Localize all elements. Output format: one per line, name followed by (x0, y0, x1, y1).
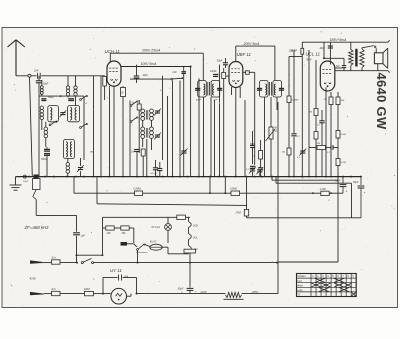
switch band b (80, 95, 88, 100)
wire vert x278 upper (277, 102, 279, 177)
rectifier loop (103, 278, 137, 295)
wire x316 (315, 60, 317, 132)
wire vert x302 (301, 57, 303, 177)
wire vert x39 (38, 76, 40, 177)
wire pot bottom (270, 139, 272, 177)
svg-text:250: 250 (122, 232, 127, 235)
coil osc T2b (150, 127, 154, 138)
resistor x316 a (309, 109, 318, 116)
capacitor fb (327, 145, 333, 154)
svg-text:50pF: 50pF (217, 60, 223, 62)
avc line L3 (97, 204, 247, 206)
capacitor 5nF out (336, 58, 347, 70)
svg-text:+: + (364, 191, 366, 195)
trimmer bottom left (77, 165, 84, 172)
coil left column (40, 106, 43, 130)
wire vert x68 (67, 76, 69, 98)
wire fb (326, 147, 339, 149)
wire res to x190 (189, 253, 191, 263)
wire grid junction line (323, 42, 344, 59)
urdox box (121, 242, 128, 246)
capacitor 40pF IF1 (134, 74, 149, 78)
wire step line b (276, 177, 352, 184)
antenna terminal (28, 74, 31, 77)
resistor 0.5M a (134, 188, 143, 196)
heater winding UCL (189, 234, 199, 240)
capacitor 50pF UBF grid (217, 60, 228, 64)
resistor 1k osc (132, 101, 142, 110)
wire T1 legs (204, 97, 212, 177)
wire x190 cap (189, 263, 191, 285)
resistor 27k (235, 209, 249, 216)
svg-text:5nF: 5nF (124, 276, 129, 278)
ground bus wire (16, 176, 362, 178)
tube UCL11 (320, 61, 335, 91)
svg-text:ZF=468 kHz: ZF=468 kHz (24, 225, 50, 230)
trimmer above bus b (256, 167, 263, 174)
wire UY right (127, 294, 191, 297)
wire 27k legs (246, 205, 248, 217)
wire to switch IF (130, 78, 171, 80)
svg-text:EU XI: EU XI (150, 241, 157, 244)
wire vert x245 bus (246, 177, 248, 206)
wire 40pF legs (136, 65, 138, 83)
capacitor 40pF out (320, 46, 334, 50)
switch band a (49, 121, 57, 126)
capacitor det b (258, 168, 263, 170)
wire x260.6 (260, 140, 262, 166)
wire urdox (127, 244, 137, 247)
capacitor 500pF (41, 149, 50, 160)
junctions on ground bus (28, 176, 362, 178)
label 210V (200, 290, 207, 294)
wire vert x172.5 (172, 81, 174, 177)
label T1 caps (196, 99, 218, 102)
capacitor 10uF shunt (36, 81, 49, 86)
svg-text:100pF: 100pF (210, 71, 217, 73)
resistor x338 low (336, 159, 346, 166)
coil antenna L1 (40, 86, 43, 95)
wire bus drop x225 (224, 177, 226, 195)
coil bumps tuned 1 (50, 108, 52, 120)
heater top wire (103, 216, 177, 218)
resistor 0.5M b (230, 188, 240, 196)
wire UCL grid drop (329, 42, 331, 64)
svg-text:UCH: UCH (193, 224, 199, 227)
wire heater to mains sw (137, 250, 139, 263)
label UCH 11 (105, 49, 121, 54)
capacitor dark b (68, 99, 74, 101)
heater chain wire (188, 217, 190, 254)
wire padder legs (156, 160, 160, 177)
dial lamp (152, 224, 172, 231)
svg-text:40pF: 40pF (143, 74, 149, 77)
resistor mains right (184, 249, 196, 253)
wire antenna to grid (41, 75, 105, 77)
IF transformer T1 (195, 81, 222, 98)
wire UBF diode line (243, 71, 246, 73)
heater return L5 (247, 217, 362, 219)
wire vert x180 (179, 81, 181, 177)
capacitor at x294 (291, 134, 300, 138)
svg-text:TA: TA (297, 294, 300, 297)
tube UCH11 (107, 61, 121, 86)
wire screen rail 100V (121, 66, 192, 68)
wire x252.5 (252, 131, 254, 164)
wire vert x162.5 (162, 76, 164, 160)
wire det caps legs (260, 166, 262, 177)
loop box tuned 1 (48, 106, 59, 122)
svg-text:1µF: 1µF (81, 235, 86, 238)
resistor x338 mid (336, 131, 346, 139)
coil bumps tuned 2b (75, 108, 77, 120)
wire x289 low (288, 155, 290, 177)
resistor x338 top (336, 97, 345, 105)
svg-text:40pF: 40pF (196, 99, 202, 102)
wire vert x75.5 (75, 76, 77, 106)
svg-text:30µF: 30µF (178, 287, 184, 290)
svg-text:3M: 3M (317, 143, 320, 145)
wire UCH pins (105, 86, 114, 177)
trimmer mid left (60, 110, 67, 117)
wire transformer primary leads (350, 42, 352, 70)
resistor 125 (106, 226, 114, 235)
trimmer osc2 (154, 133, 161, 140)
resistor x331 (323, 97, 333, 105)
capacitor dark a (41, 97, 54, 100)
wire trim legs (253, 166, 260, 177)
mains line 1b (94, 262, 278, 264)
tube UBF11 (229, 62, 243, 88)
wire x139 (138, 100, 140, 153)
fuse Si b (52, 288, 61, 296)
capacitor x322 (317, 121, 325, 127)
resistor top right (291, 48, 304, 54)
resistor 250 (121, 226, 129, 235)
wire x123 (122, 86, 124, 177)
wire vert x245 above (244, 100, 246, 177)
label 185V 5mA (330, 38, 348, 42)
wire vert x190.6 (190, 67, 192, 177)
svg-text:Mittel: Mittel (297, 284, 303, 287)
label 100V 5mA (141, 62, 158, 66)
heater bottom exit (102, 246, 104, 256)
wire heater right (185, 216, 190, 218)
switch osc b (130, 117, 138, 123)
label 100pF top right (289, 49, 296, 52)
capacitor 2nF series antenna (33, 69, 40, 79)
capacitor 1nF osc (131, 150, 140, 154)
wire vert x84 (83, 96, 85, 160)
label UCL 11 (306, 52, 321, 57)
label 200V 25mA (141, 49, 161, 53)
coil L10 (66, 163, 70, 174)
wire x294 low (293, 137, 295, 177)
coil antenna L2 (66, 86, 69, 96)
wire down to 1uF (76, 215, 78, 231)
wire vert x183.7 (183, 67, 185, 177)
capacitor 1uF (73, 233, 85, 238)
capacitor 2nF mid (182, 72, 186, 74)
mains switch (81, 258, 93, 263)
junction x180 (0, 0, 1, 1)
wire x322 (321, 110, 323, 177)
wire vert x28.5 (30, 77, 33, 176)
wire L10 bottom (67, 159, 69, 177)
resistor 10k det (282, 148, 292, 155)
wire x289 (288, 57, 290, 149)
resistor x316 b (314, 132, 318, 140)
svg-text:+: + (195, 290, 197, 294)
feedback line (309, 147, 316, 149)
wire UCL screen line (335, 67, 342, 69)
trimmer mid bottom (181, 149, 188, 156)
osc T2 core (146, 128, 148, 138)
dropper resistor zigzag (224, 292, 244, 299)
wire to ZF cap (36, 200, 76, 216)
wire x97 drop (96, 177, 98, 204)
valve table header (297, 275, 354, 278)
wire x316 low (315, 139, 317, 177)
wire antenna lead-in (16, 75, 37, 77)
wire vert x146.8 (146, 139, 148, 177)
wire grid cap legs (225, 58, 227, 68)
svg-text:50µF: 50µF (335, 180, 341, 183)
heater winding UBF (189, 246, 199, 252)
switch heater (136, 244, 148, 254)
svg-text:UY 11: UY 11 (110, 268, 122, 273)
loop box tuned 2 (68, 106, 80, 122)
label 75 (90, 151, 93, 154)
wire x294 (293, 52, 295, 134)
svg-text:0,1: 0,1 (246, 169, 249, 171)
detector diode sym (250, 144, 255, 148)
svg-text:1nF: 1nF (131, 152, 136, 154)
wire vert x214.5 (214, 100, 216, 177)
svg-text:1MΩ: 1MΩ (215, 75, 220, 77)
wire trimmer x80.5 (80, 158, 82, 177)
switch band c (80, 123, 88, 128)
fuse Si a (52, 256, 61, 264)
label ZF 468 kHz (24, 225, 50, 230)
svg-text:2nF: 2nF (33, 69, 39, 73)
wire vert x167.5 (167, 96, 169, 177)
output transformer secondary (360, 49, 364, 68)
label 80V (307, 58, 313, 62)
wire x331 (330, 92, 332, 177)
mains line 2b (94, 293, 111, 295)
svg-text:0,1: 0,1 (317, 125, 320, 127)
switch osc a (130, 101, 138, 107)
electrolytic 30uF (178, 285, 198, 294)
svg-text:+: + (346, 189, 348, 193)
wire x219.5 (219, 65, 221, 177)
wire vert feed x74 (73, 177, 75, 191)
wire after diode (249, 72, 255, 112)
wire L2 right (240, 192, 343, 194)
wire osc coil links (143, 120, 152, 150)
mains plug prong b (30, 292, 44, 295)
svg-text:2nF: 2nF (172, 71, 178, 74)
wire lamp top (167, 217, 169, 223)
valve table X marks (311, 278, 356, 296)
svg-text:50µF: 50µF (353, 181, 359, 184)
label 200V 5mA (243, 42, 261, 46)
label UY 11 (110, 268, 122, 273)
capacitor 100pF det (210, 71, 218, 77)
switch speaker lead (362, 46, 376, 49)
wire link y96 (39, 95, 84, 97)
wire vert x254.7 (254, 112, 256, 165)
resistor 0.3M det (287, 96, 299, 103)
svg-text:200V 25mA: 200V 25mA (141, 49, 161, 53)
wire vert x199 (198, 78, 200, 176)
wire T2 legs (265, 97, 278, 177)
coil bumps tuned 2a (70, 108, 72, 120)
trimmer osc1 (154, 109, 161, 116)
coil osc T1b (150, 109, 154, 120)
svg-text:UBF 11: UBF 11 (237, 52, 252, 57)
svg-text:kΩ: kΩ (274, 130, 277, 132)
switch IF in (171, 71, 183, 80)
screen line L2 (74, 191, 135, 193)
wire vert x278 long (277, 177, 279, 294)
svg-text:1,2kΩ: 1,2kΩ (320, 188, 327, 191)
mains line 1 (44, 262, 78, 264)
svg-text:100V 5mA: 100V 5mA (141, 62, 158, 66)
wire step line a (272, 177, 338, 181)
svg-text:185V+5mA: 185V+5mA (330, 38, 348, 42)
mains plug prong a (30, 260, 44, 263)
wire resistor to x289 (289, 42, 302, 56)
wire elco lead x351 (351, 183, 353, 218)
wire rail drop to T3 (274, 46, 276, 80)
wire lamp bottom (167, 230, 169, 243)
wire sw to ballast (144, 244, 150, 246)
ground terminal (23, 175, 26, 178)
coil antenna L3 (74, 86, 77, 96)
wire ballast (162, 247, 188, 254)
svg-text:100pF: 100pF (48, 97, 55, 99)
svg-text:Kurz: Kurz (297, 280, 303, 283)
wire vert x101 (100, 76, 102, 177)
volume pot 40k (266, 127, 278, 141)
label 42W (30, 277, 37, 281)
wire vert x309 (308, 50, 310, 177)
wire x223.7 (223, 68, 225, 177)
capacitor 5nF rect (119, 275, 129, 281)
wire dropper to corner (242, 293, 279, 295)
svg-text:0,3MΩ: 0,3MΩ (292, 100, 299, 102)
resistor fb horizontal (317, 143, 326, 150)
IF transformer T2 (257, 81, 284, 98)
svg-text:27kΩ: 27kΩ (235, 211, 242, 214)
wire vert x93.5 (93, 76, 95, 177)
wire bus drop x210 (209, 177, 211, 195)
antenna (8, 40, 25, 76)
wire 1uF down (76, 236, 78, 263)
osc T1 core (146, 110, 148, 120)
wire top rail 200V (110, 52, 203, 54)
transformer core (355, 49, 357, 67)
svg-text:4640 GW: 4640 GW (374, 73, 389, 130)
wave switch block (23, 175, 40, 190)
svg-text:UCL 11: UCL 11 (306, 52, 321, 57)
coil osc T1a (141, 109, 145, 120)
svg-text:0,1: 0,1 (327, 152, 330, 154)
electrolytic 50uF b (353, 177, 366, 218)
svg-text:0,5MΩ: 0,5MΩ (134, 188, 141, 191)
wire vert x47 cap leads (46, 147, 48, 177)
wire x143 bottom (137, 152, 143, 177)
wire x338 (337, 92, 339, 131)
valve table grid (297, 274, 357, 297)
wire L1 stubs (41, 80, 43, 96)
resistor 1M UBF grid (215, 73, 226, 79)
svg-text:Si a: Si a (52, 256, 57, 259)
heater winding UCH (189, 222, 199, 228)
svg-text:100pF: 100pF (289, 49, 296, 52)
svg-text:1M: 1M (309, 111, 312, 113)
resistor diode load (246, 71, 250, 75)
wire anode rail down to T1 (202, 53, 204, 80)
svg-text:10µF: 10µF (43, 83, 49, 86)
svg-text:10µF: 10µF (23, 181, 29, 183)
ballast EU XI (150, 241, 162, 251)
coil bumps tuned 3 (66, 142, 68, 157)
svg-text:Si b: Si b (52, 288, 57, 291)
svg-text:125: 125 (107, 232, 112, 235)
wire UCH anode to top rail (109, 53, 111, 61)
wire 200V rail right (236, 45, 275, 47)
capacitor det a (246, 166, 255, 171)
wire UBF grid line (224, 75, 229, 77)
wire L2 mid (143, 192, 231, 194)
heater left vert (102, 217, 104, 246)
svg-text:0,5MΩ: 0,5MΩ (230, 188, 237, 191)
wire UBF pins down (232, 87, 241, 177)
svg-text:160Ω: 160Ω (84, 288, 90, 291)
label 205V (251, 290, 258, 294)
trimmer tone (297, 149, 306, 159)
resistor 1.2k filter (312, 188, 332, 196)
resistor under UCH b (120, 88, 126, 97)
resistor heater dropper (177, 215, 186, 219)
output transformer primary (349, 50, 353, 66)
svg-text:0,1: 0,1 (297, 157, 300, 159)
coil L7 (44, 127, 48, 138)
wire avc branch (77, 254, 104, 256)
wire vert x130 (129, 101, 131, 177)
wire UBF anode up (235, 46, 237, 62)
coil bumps tuned 3b (70, 142, 72, 157)
label UBF 11 (237, 52, 252, 57)
wire transformer secondary bottom lead (361, 68, 363, 71)
wire x338 c (337, 166, 339, 263)
wire 185V rail (302, 40, 389, 42)
resistor 160 ohm (84, 288, 94, 296)
resistor 0.2M det (252, 151, 263, 160)
wire res row (103, 228, 134, 243)
switch lever wave (33, 190, 36, 200)
wire vert x45.8 lower (45, 122, 47, 147)
speaker (374, 48, 387, 68)
electrolytic 50uF a (335, 177, 348, 194)
svg-text:6V 0,1A: 6V 0,1A (152, 226, 161, 229)
wire UCL anode line (335, 71, 390, 73)
resistor osc fb (141, 149, 145, 156)
model label 4640 GW (374, 73, 389, 130)
